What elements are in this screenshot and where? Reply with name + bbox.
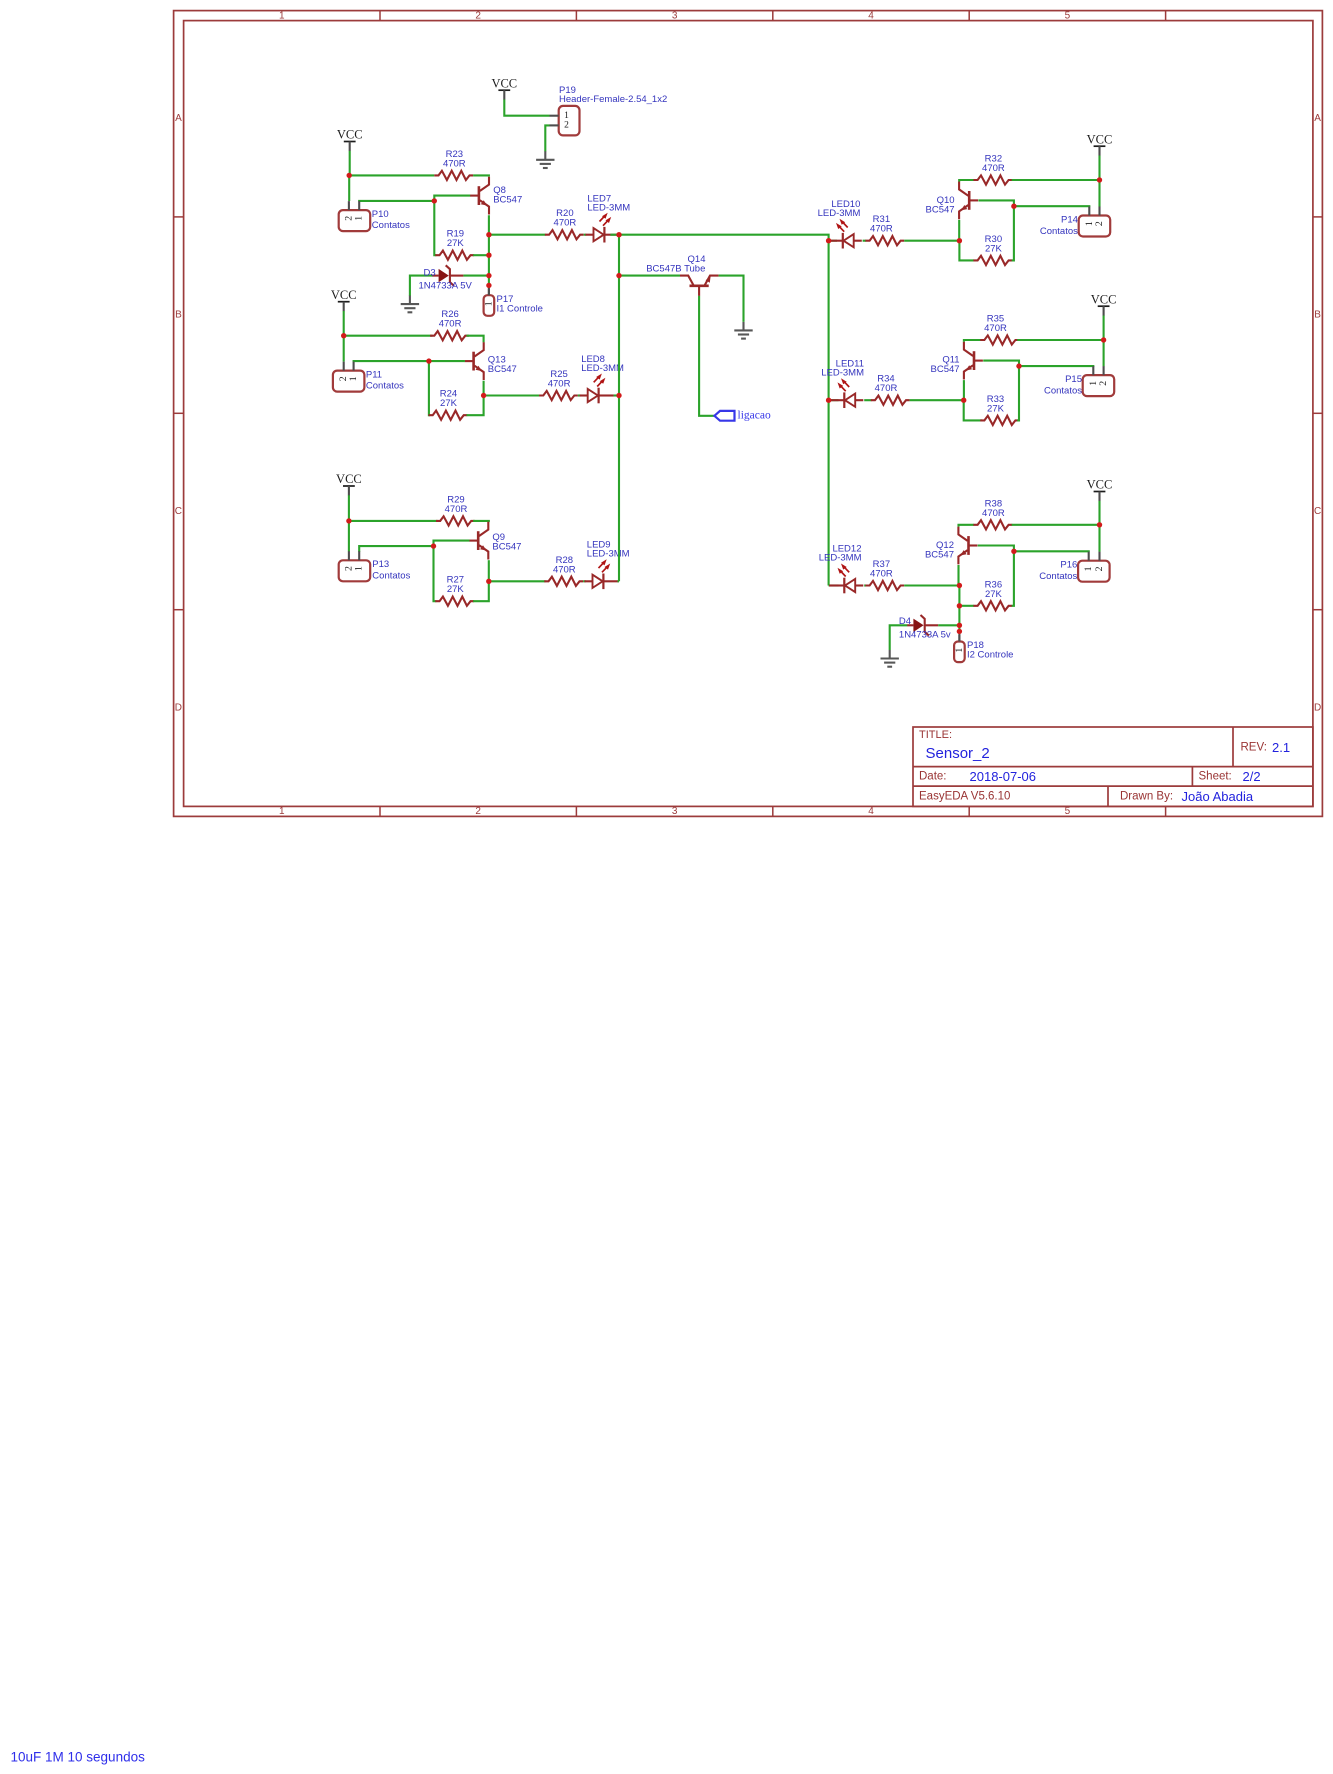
wire R24 to emitter node: [467, 396, 484, 416]
wire R35 row to collector: [964, 340, 982, 342]
wire D3 cathode to bus: [463, 275, 489, 277]
wire R37 to Q12 emitter node: [904, 584, 959, 586]
wire Q8 base to junction: [434, 196, 470, 201]
wire R36 left to bus: [959, 605, 974, 607]
diode LED8 LED-3MM: [580, 374, 614, 404]
svg-text:Contatos: Contatos: [1039, 571, 1077, 582]
wire main vertical bus left: [618, 235, 620, 582]
power flag VCC Q11 block: [1091, 292, 1117, 315]
svg-text:Contatos: Contatos: [1044, 385, 1082, 396]
sheet outer border frame: [174, 11, 1323, 817]
wire R26 to Q13 collector: [467, 336, 484, 343]
wire R23 to Q8 collector: [473, 175, 489, 176]
frame row letters: [175, 113, 1321, 713]
wire VCC down to R26 node: [343, 311, 345, 336]
wire R30 left to emitter node: [959, 241, 974, 261]
resistor R26 R26 470R: [430, 309, 469, 340]
wire bus to Q14 collector: [619, 275, 680, 277]
svg-text:1: 1: [483, 301, 494, 306]
wire Q14 base to net flag: [699, 296, 714, 416]
svg-text:B: B: [1314, 310, 1321, 321]
wire VCC to P19 pin 1: [504, 100, 549, 116]
svg-text:3: 3: [672, 806, 678, 817]
wire R20 to LED7: [584, 234, 587, 236]
junction base node Q12: [1011, 549, 1016, 554]
junction R19/bus: [486, 253, 491, 258]
wire P19 pin 2 to ground: [545, 125, 549, 151]
svg-text:470R: 470R: [870, 224, 893, 235]
svg-text:LED-3MM: LED-3MM: [587, 549, 630, 560]
svg-text:1: 1: [354, 216, 365, 221]
ground Q14: [734, 322, 752, 339]
transistor Q9 BC547: [469, 522, 488, 560]
sheet inner border frame: [184, 21, 1313, 807]
svg-text:VCC: VCC: [491, 76, 517, 90]
svg-text:Sheet:: Sheet:: [1199, 771, 1232, 783]
svg-text:VCC: VCC: [1087, 478, 1113, 492]
resistor R32 R32 470R: [973, 154, 1012, 185]
resistor R30 R30 27K: [973, 234, 1012, 265]
svg-text:4: 4: [868, 10, 874, 21]
svg-text:470R: 470R: [982, 508, 1005, 519]
svg-text:BC547: BC547: [931, 364, 960, 375]
svg-text:470R: 470R: [984, 323, 1007, 334]
svg-text:P11: P11: [366, 369, 382, 380]
wire R28 to LED9: [583, 580, 586, 582]
svg-text:D4: D4: [899, 616, 911, 627]
svg-text:Sensor_2: Sensor_2: [926, 745, 990, 762]
connector P18 I2 Controle I2 Controle: [954, 635, 965, 662]
svg-text:C: C: [1314, 506, 1321, 517]
junction D4 node: [957, 623, 962, 628]
wire VCC stem Q10: [1098, 156, 1100, 181]
svg-text:2.1: 2.1: [1272, 740, 1290, 755]
power flag VCC P19: [491, 76, 517, 99]
wire Q12 base to junction: [978, 546, 1014, 552]
svg-text:470R: 470R: [982, 163, 1005, 174]
junction VCC/P15: [1101, 337, 1106, 342]
junction base node Q8: [432, 198, 437, 203]
svg-text:LED-3MM: LED-3MM: [821, 368, 864, 379]
svg-text:470R: 470R: [445, 504, 468, 515]
wire VCC down to R23 node: [349, 151, 351, 176]
junction Q8 emitter node: [486, 232, 491, 237]
wire Q14 emitter to ground: [719, 276, 744, 322]
svg-text:BC547: BC547: [493, 195, 522, 206]
svg-text:Contatos: Contatos: [372, 220, 410, 231]
junction bus LED7: [616, 232, 621, 237]
wire R33 right to base node: [1017, 366, 1019, 420]
svg-text:1N4733A 5V: 1N4733A 5V: [419, 281, 473, 292]
junction base node Q13: [426, 358, 431, 363]
wire VCC node down to P16 pin2: [1098, 525, 1100, 552]
wire base node down to R24: [429, 361, 430, 415]
resistor R33 R33 27K: [980, 394, 1019, 425]
svg-text:P16: P16: [1060, 560, 1077, 571]
svg-text:ligacao: ligacao: [738, 410, 771, 422]
resistor R31 R31 470R: [865, 214, 904, 245]
transistor Q11 BC547: [964, 342, 983, 380]
junction Q13 emitter node: [481, 393, 486, 398]
svg-text:10uF 1M 10 segundos: 10uF 1M 10 segundos: [11, 1750, 146, 1765]
resistor R19 R19 27K: [435, 229, 474, 260]
svg-text:TITLE:: TITLE:: [919, 729, 952, 741]
connector P10 Contatos: [339, 201, 371, 231]
svg-text:2: 2: [564, 121, 569, 131]
svg-text:LED-3MM: LED-3MM: [581, 363, 624, 374]
junction Q12 emitter node: [957, 583, 962, 588]
diode LED9 LED-3MM: [584, 559, 618, 589]
power flag VCC Q12 block: [1087, 478, 1113, 501]
wire R25 to LED8: [578, 394, 581, 396]
connector pin stub P18: [958, 631, 960, 641]
resistor R27 R27 27K: [435, 575, 474, 606]
svg-text:27K: 27K: [987, 403, 1005, 414]
svg-text:1: 1: [348, 376, 359, 381]
svg-text:VCC: VCC: [337, 128, 363, 142]
wire bus to LED11: [829, 399, 839, 401]
svg-text:Contatos: Contatos: [372, 570, 410, 581]
svg-text:2: 2: [1098, 381, 1109, 386]
junction P18 node: [957, 629, 962, 634]
zener diode D3 1N4733A 1N4733A 5V: [432, 265, 463, 286]
wire bus to LED12: [829, 584, 839, 586]
svg-text:I2 Controle: I2 Controle: [967, 650, 1013, 661]
svg-text:470R: 470R: [548, 379, 571, 390]
svg-text:1: 1: [564, 111, 569, 121]
svg-text:4: 4: [868, 806, 874, 817]
junction bus Q14 row: [616, 273, 621, 278]
junction Q10 emitter node: [957, 238, 962, 243]
svg-text:A: A: [175, 113, 182, 124]
svg-text:470R: 470R: [554, 218, 577, 229]
svg-text:LED-3MM: LED-3MM: [818, 208, 861, 219]
junction base node Q11: [1016, 363, 1021, 368]
resistor R36 R36 27K: [973, 579, 1012, 610]
wire LED8 to main bus: [614, 394, 619, 396]
svg-text:27K: 27K: [985, 243, 1003, 254]
wire emitter node down to P18: [958, 586, 960, 632]
wire base node down to R27: [434, 546, 437, 601]
junction bus LED10: [826, 238, 831, 243]
wire LED12 to R37: [864, 584, 866, 586]
svg-text:BC547: BC547: [925, 550, 954, 561]
svg-text:Header-Female-2.54_1x2: Header-Female-2.54_1x2: [559, 94, 667, 105]
svg-text:VCC: VCC: [1087, 132, 1113, 146]
svg-text:2: 2: [1094, 221, 1105, 226]
svg-text:LED-3MM: LED-3MM: [819, 553, 862, 564]
resistor R34 R34 470R: [871, 374, 910, 405]
connector P11 Contatos: [333, 362, 365, 392]
svg-text:P14: P14: [1061, 215, 1078, 226]
connector P15 Contatos: [1083, 366, 1115, 396]
svg-text:2: 2: [475, 806, 481, 817]
svg-text:2: 2: [475, 10, 481, 21]
resistor R35 R35 470R: [980, 314, 1019, 345]
wire LED10 to R31: [863, 240, 867, 242]
svg-text:LED-3MM: LED-3MM: [587, 202, 630, 213]
power flag VCC Q10 block: [1087, 132, 1113, 155]
wire R29 to Q9 collector: [473, 521, 489, 522]
power flag VCC Q13 block: [331, 288, 357, 311]
frame column ticks top: [380, 11, 1166, 817]
wire P11 pin2 to VCC node: [343, 336, 345, 362]
wire Q9 emitter down: [488, 560, 490, 581]
svg-text:470R: 470R: [553, 564, 576, 575]
diode LED11 LED-3MM: [829, 378, 863, 408]
wire R33 left to emitter node: [964, 400, 982, 420]
wire base node to P16 pin1: [1014, 550, 1089, 553]
transistor Q12 BC547: [958, 527, 977, 565]
resistor R24 R24 27K: [429, 389, 468, 420]
svg-text:João Abadia: João Abadia: [1182, 789, 1254, 804]
wire emitter node to R20: [489, 234, 546, 236]
svg-text:470R: 470R: [443, 158, 466, 169]
wire base node to P15 pin1: [1019, 365, 1093, 368]
svg-text:1: 1: [954, 648, 965, 653]
wire D4 anode from ground: [890, 625, 908, 650]
wire base node to P14 pin1: [1014, 205, 1089, 208]
resistor R37 R37 470R: [865, 559, 904, 590]
wire R19 to emitter bus: [473, 254, 489, 256]
svg-text:VCC: VCC: [336, 472, 362, 486]
wire R35 to VCC node: [1017, 339, 1103, 341]
wire VCC node to R23: [349, 174, 434, 176]
wire VCC node down to P14 pin2: [1098, 180, 1100, 207]
transistor Q14 BC547B Tube: [680, 276, 719, 296]
svg-text:1: 1: [279, 10, 285, 21]
svg-text:1: 1: [354, 566, 365, 571]
junction VCC/R26/P11: [341, 333, 346, 338]
resistor R23 R23 470R: [434, 149, 473, 180]
wire LED11 to R34: [864, 399, 871, 401]
power flag VCC Q9 block: [336, 472, 362, 495]
junction bus LED11: [826, 398, 831, 403]
diode LED7 LED-3MM: [585, 213, 619, 243]
wire Q11 emitter down: [963, 380, 965, 400]
wire VCC down to R29 node: [348, 495, 350, 521]
power flag VCC Q8 block: [337, 128, 363, 151]
connector P19 Header-Female-2.54_1x2: [550, 106, 580, 135]
wire R32 row to collector: [959, 180, 974, 182]
svg-text:470R: 470R: [439, 319, 462, 330]
svg-text:27K: 27K: [440, 398, 458, 409]
resistor R29 R29 470R: [436, 494, 475, 525]
transistor Q13 BC547: [465, 342, 484, 380]
svg-text:3: 3: [672, 10, 678, 21]
wire R34 to Q11 emitter node: [910, 399, 964, 401]
svg-text:2: 2: [1094, 566, 1105, 571]
net flag ligacao: [714, 411, 734, 421]
svg-text:P13: P13: [372, 559, 389, 570]
connector pin stub P17: [488, 285, 490, 295]
junction bus LED8: [616, 393, 621, 398]
wire base node down to R19: [434, 201, 436, 255]
svg-text:VCC: VCC: [1091, 292, 1117, 306]
wire base node to P10 pin 1: [359, 200, 434, 203]
wire R36 right to base node: [1012, 551, 1014, 606]
svg-text:BC547: BC547: [488, 364, 517, 375]
wire VCC stem Q12: [1098, 501, 1100, 525]
junction VCC/R23/P10: [347, 173, 352, 178]
wire emitter node to R28: [489, 580, 546, 582]
wire Q13 emitter down: [483, 381, 485, 396]
wire VCC node down to P15 pin2: [1103, 340, 1105, 366]
junction D3/bus: [486, 273, 491, 278]
wire bus to LED10: [829, 240, 837, 242]
svg-text:470R: 470R: [870, 569, 893, 580]
svg-text:1N4733A 5v: 1N4733A 5v: [899, 629, 951, 640]
ground P19: [536, 151, 554, 168]
wire Q9 base to junction: [434, 541, 470, 547]
junction R36 node: [957, 603, 962, 608]
connector P14 Contatos: [1079, 207, 1111, 237]
svg-text:BC547B Tube: BC547B Tube: [646, 263, 705, 274]
junction base node Q9: [431, 543, 436, 548]
transistor Q10 BC547: [959, 182, 978, 220]
svg-text:B: B: [175, 310, 182, 321]
wire D3 anode from ground: [410, 276, 433, 296]
svg-text:BC547: BC547: [492, 541, 521, 552]
svg-text:D: D: [1314, 703, 1321, 714]
wire P10 pin2 to VCC node: [348, 175, 350, 201]
svg-text:VCC: VCC: [331, 288, 357, 302]
svg-text:EasyEDA V5.6.10: EasyEDA V5.6.10: [919, 790, 1010, 802]
wire Q11 base to junction: [983, 361, 1019, 367]
svg-text:5: 5: [1065, 10, 1071, 21]
svg-text:I1 Controle: I1 Controle: [497, 304, 543, 315]
wire VCC node to R29: [349, 520, 438, 522]
resistor R38 R38 470R: [973, 498, 1012, 529]
svg-text:27K: 27K: [447, 238, 465, 249]
svg-text:REV:: REV:: [1241, 742, 1267, 754]
wire R30 right to base node: [1012, 206, 1014, 260]
svg-text:470R: 470R: [875, 383, 898, 394]
wire Q13 base to junction: [429, 360, 465, 362]
wire base node to P11 pin 1: [354, 360, 429, 363]
svg-text:P15: P15: [1065, 374, 1082, 385]
wire R38 row to collector: [959, 525, 974, 527]
ground D4: [881, 650, 899, 667]
junction P17/bus: [486, 283, 491, 288]
wire top horizontal bus: [619, 235, 829, 586]
wire LED9 to main bus: [618, 580, 620, 582]
svg-text:1: 1: [1083, 566, 1094, 571]
frame column numbers: [279, 10, 1071, 817]
svg-text:2/2: 2/2: [1243, 769, 1261, 784]
svg-text:D: D: [175, 703, 182, 714]
svg-text:Contatos: Contatos: [366, 381, 404, 392]
wire R38 to VCC node: [1012, 524, 1100, 526]
frame row ticks: [174, 217, 1323, 610]
svg-text:C: C: [175, 506, 182, 517]
zener diode D4 1N4733A 1N4733A 5v: [907, 615, 938, 636]
junction Q11 emitter node: [961, 398, 966, 403]
svg-text:Date:: Date:: [919, 771, 947, 783]
wire VCC node to R26: [344, 335, 433, 337]
wire emitter node to R25: [484, 394, 541, 396]
junction VCC/R29/P13: [346, 518, 351, 523]
diode LED10 LED-3MM: [828, 219, 862, 249]
wire P13 pin2 to VCC node: [348, 521, 350, 552]
svg-text:27K: 27K: [447, 584, 465, 595]
resistor R25 R25 470R: [539, 369, 578, 400]
svg-text:5: 5: [1065, 806, 1071, 817]
wire LED7 to main bus: [610, 234, 619, 236]
junction base node Q10: [1011, 204, 1016, 209]
title block outline: [913, 727, 1313, 806]
svg-text:BC547: BC547: [926, 204, 955, 215]
svg-text:A: A: [1314, 113, 1321, 124]
wire Q8 emitter down the bus: [488, 215, 490, 285]
connector P17 I1 Controle I1 Controle: [483, 289, 494, 316]
wire R27 to emitter node: [473, 581, 489, 601]
diode LED12 LED-3MM: [829, 564, 863, 594]
wire base node to P13 pin 1: [359, 546, 433, 552]
svg-text:27K: 27K: [985, 589, 1003, 600]
wire Q10 emitter down: [958, 220, 960, 241]
wire R31 to Q10 emitter node: [904, 240, 959, 242]
wire D4 cathode to bus: [938, 624, 959, 626]
wire R32 to VCC node: [1012, 179, 1100, 181]
junction VCC/P16: [1097, 522, 1102, 527]
ground D3: [401, 296, 419, 313]
wire Q12 emitter down: [957, 565, 959, 586]
resistor R20 R20 470R: [545, 208, 584, 239]
svg-text:D3: D3: [424, 267, 436, 278]
wire VCC stem Q11: [1103, 316, 1105, 341]
wire Q10 base to junction: [978, 200, 1014, 206]
svg-text:1: 1: [279, 806, 285, 817]
resistor R28 R28 470R: [544, 555, 583, 586]
svg-text:Drawn By:: Drawn By:: [1120, 790, 1173, 802]
connector P16 Contatos: [1078, 552, 1110, 582]
junction VCC/P14: [1097, 177, 1102, 182]
svg-text:P10: P10: [372, 209, 389, 220]
transistor Q8 BC547: [470, 177, 489, 215]
connector P13 Contatos: [339, 551, 371, 581]
junction Q9 emitter node: [486, 579, 491, 584]
svg-text:2018-07-06: 2018-07-06: [970, 769, 1037, 784]
svg-text:Contatos: Contatos: [1040, 226, 1078, 237]
